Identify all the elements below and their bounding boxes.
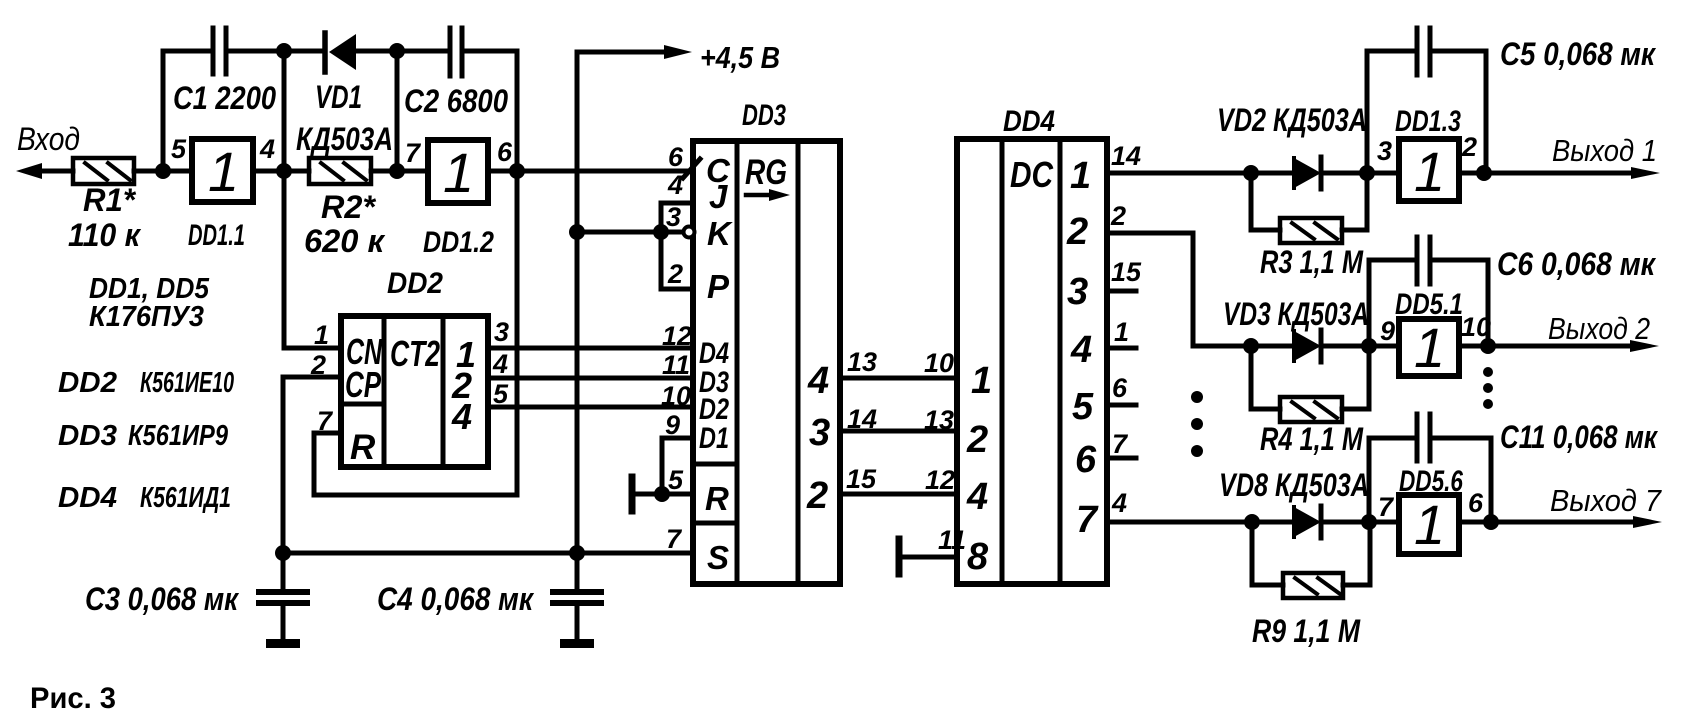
svg-text:1: 1: [1070, 155, 1091, 197]
chassis terminal at DD3 R: [629, 477, 636, 511]
svg-text:1: 1: [971, 360, 992, 402]
resistor R3 loop: [1251, 173, 1367, 243]
svg-text:13: 13: [847, 347, 877, 377]
register DD3: [693, 141, 840, 584]
wire vertical x=397 top to main: [395, 51, 400, 171]
wire DD4 out 7 pin 4 to VD8: [1107, 520, 1294, 525]
node junction top at x=397: [389, 43, 405, 59]
wire DD3 out 3 pin 14 to DD4 in 2: [840, 429, 957, 434]
capacitor C1: [213, 28, 226, 74]
wire vertical x=517 from top wire down to DD2 R loop: [515, 51, 520, 495]
svg-text:12: 12: [662, 321, 692, 351]
wire DD3 out 4 pin 13 to DD4 in 1: [840, 376, 957, 381]
svg-text:К561ИР9: К561ИР9: [128, 420, 228, 452]
pin C dynamic input slash: [683, 159, 700, 178]
node junction at x=662 R wire: [654, 486, 670, 502]
node junction at x=661 K wire: [653, 224, 669, 240]
svg-text:11: 11: [938, 525, 966, 555]
svg-text:C5 0,068 мк: C5 0,068 мк: [1500, 36, 1657, 72]
wire chassis to DD3 pin R: [632, 492, 693, 497]
diode VD8: [1294, 506, 1321, 538]
svg-text:C3 0,068 мк: C3 0,068 мк: [85, 581, 240, 617]
chassis terminal at DD4 input 8: [896, 539, 903, 574]
svg-text:DD4: DD4: [58, 482, 117, 514]
svg-text:4: 4: [807, 360, 829, 402]
node junction row1 at x=1484: [1476, 165, 1492, 181]
svg-text:4: 4: [966, 476, 988, 518]
svg-text:15: 15: [1111, 257, 1142, 287]
node junction at x=577 K wire: [569, 224, 585, 240]
ellipsis dots left of diode rows: [1191, 391, 1203, 457]
svg-text:4: 4: [1070, 329, 1092, 371]
svg-text:3: 3: [494, 317, 509, 347]
wire DD2 output 1 pin 3 to DD3 D4: [488, 346, 693, 351]
svg-text:D1: D1: [699, 422, 729, 455]
svg-text:P: P: [707, 268, 730, 305]
svg-text:J: J: [709, 178, 728, 215]
capacitor C11 loop: [1369, 414, 1491, 522]
svg-text:K: K: [707, 215, 733, 252]
svg-text:110 к: 110 к: [68, 217, 142, 253]
wire DD2 pin 1 CN: [284, 346, 341, 351]
svg-text:+4,5 В: +4,5 В: [700, 40, 780, 75]
svg-text:4: 4: [492, 349, 508, 379]
diode VD2: [1294, 157, 1321, 189]
svg-text:7: 7: [1378, 492, 1395, 522]
svg-text:7: 7: [1076, 499, 1099, 541]
node junction at R1 right: [155, 163, 171, 179]
op element DD1.1: [192, 139, 253, 202]
stub DD4 out 6 pin 7: [1107, 456, 1136, 461]
op element DD5.6: [1399, 495, 1459, 554]
node junction row1 at x=1367: [1359, 165, 1375, 181]
wire DD4 out 2 pin 2 corner down to row 2: [1107, 233, 1294, 346]
svg-text:CP: CP: [345, 364, 382, 405]
svg-text:4: 4: [451, 396, 472, 437]
op element DD5.1: [1399, 319, 1459, 376]
svg-text:2: 2: [1066, 211, 1088, 253]
svg-text:11: 11: [662, 350, 690, 380]
wire DD2 output 4 pin 5 to DD3 D2: [488, 405, 693, 410]
svg-text:R1*: R1*: [83, 182, 137, 218]
power +4,5 В branch: [577, 45, 692, 553]
counter DD2: [341, 316, 488, 467]
svg-text:6: 6: [1468, 488, 1484, 518]
op element DD1.3: [1399, 139, 1459, 201]
op element DD1.2: [428, 140, 488, 203]
svg-text:5: 5: [1072, 386, 1094, 428]
svg-text:VD1: VD1: [315, 79, 362, 115]
svg-text:2: 2: [966, 419, 988, 461]
svg-text:3: 3: [1067, 271, 1088, 313]
svg-text:DC: DC: [1010, 154, 1054, 195]
svg-text:DD5.1: DD5.1: [1395, 288, 1463, 321]
node: input terminal Вход arrow: [16, 163, 73, 179]
svg-text:6: 6: [668, 142, 684, 172]
svg-text:6: 6: [497, 137, 513, 167]
node junction row3 at x=1491: [1483, 514, 1499, 530]
svg-text:4: 4: [667, 170, 683, 200]
node junction row3 at x=1369: [1361, 514, 1377, 530]
node junction at x=397 main line: [389, 163, 405, 179]
wire R1 to DD1.1: [134, 169, 192, 174]
RG shift arrow: [746, 189, 790, 201]
svg-text:VD2 КД503А: VD2 КД503А: [1217, 102, 1367, 138]
svg-text:5: 5: [668, 465, 684, 495]
svg-text:10: 10: [924, 348, 954, 378]
wire K input from +4,5 vertical: [577, 230, 682, 235]
wire DD1.2 to DD3 pin C: [488, 169, 693, 174]
svg-text:2: 2: [667, 259, 683, 289]
capacitor C4: [553, 553, 601, 639]
wire vertical CP down to bottom rail: [281, 377, 286, 553]
svg-text:7: 7: [1112, 429, 1129, 459]
svg-text:R9 1,1 М: R9 1,1 М: [1252, 613, 1361, 649]
wire DD2 pin 7 R: [314, 433, 517, 495]
svg-text:DD5.6: DD5.6: [1399, 465, 1463, 498]
svg-text:DD2: DD2: [58, 367, 117, 399]
wire bottom rail to DD3 pin S: [283, 551, 693, 556]
node junction row2 at x=1369: [1361, 338, 1377, 354]
svg-text:12: 12: [925, 465, 955, 495]
svg-text:C2 6800: C2 6800: [404, 83, 508, 119]
svg-text:1: 1: [1114, 317, 1129, 347]
svg-text:7: 7: [666, 524, 683, 554]
svg-text:R2*: R2*: [321, 189, 377, 225]
decoder DD4: [957, 139, 1107, 584]
svg-text:C1 2200: C1 2200: [173, 80, 276, 116]
node junction rail at x=283: [275, 545, 291, 561]
node junction at x=284 main line: [276, 163, 292, 179]
resistor R1: [73, 158, 134, 184]
svg-text:1: 1: [1414, 140, 1445, 203]
wire DD1.3 to output arrow 1: [1459, 167, 1660, 179]
wire DD1.1 to R2: [253, 169, 309, 174]
capacitor C5 loop: [1367, 28, 1486, 173]
svg-text:Выход 1: Выход 1: [1552, 133, 1657, 168]
node junction row2 at x=1488: [1480, 338, 1496, 354]
svg-text:1: 1: [208, 140, 239, 203]
svg-text:DD3: DD3: [742, 99, 786, 132]
resistor R2: [309, 158, 371, 184]
node junction row1 at x=1251: [1243, 165, 1259, 181]
node junction row2 at x=1251: [1243, 338, 1259, 354]
svg-text:К176ПУ3: К176ПУ3: [89, 301, 204, 333]
node junction row3 at x=1252: [1244, 514, 1260, 530]
svg-text:9: 9: [1380, 316, 1395, 346]
svg-text:R4 1,1 М: R4 1,1 М: [1260, 421, 1364, 457]
svg-text:8: 8: [967, 536, 989, 578]
svg-text:Рис. 3: Рис. 3: [30, 682, 116, 715]
svg-text:R3 1,1 М: R3 1,1 М: [1260, 244, 1364, 280]
svg-text:6: 6: [1075, 439, 1097, 481]
svg-text:5: 5: [171, 134, 187, 164]
svg-text:R: R: [705, 480, 729, 517]
wire DD5.6 to output arrow 7: [1459, 516, 1662, 528]
svg-text:RG: RG: [745, 153, 787, 192]
svg-text:1: 1: [1414, 316, 1445, 379]
diode VD3: [1294, 330, 1321, 362]
wire vertical x=284 from top wire through main to DD2 pin1: [282, 51, 287, 348]
svg-text:1: 1: [443, 141, 474, 204]
svg-text:К561ИЕ10: К561ИЕ10: [140, 367, 234, 399]
inversion bubble at K pin: [684, 227, 695, 238]
svg-text:1: 1: [314, 320, 329, 350]
wire D1 bracket down to R wire: [662, 438, 693, 494]
ellipsis dots below output 2: [1483, 367, 1493, 409]
svg-text:VD8 КД503А: VD8 КД503А: [1219, 467, 1369, 503]
svg-text:2: 2: [1461, 132, 1477, 162]
diode VD1: [325, 33, 356, 72]
capacitor C6 loop: [1369, 237, 1488, 346]
svg-text:620 к: 620 к: [304, 223, 386, 259]
stub DD4 out 5 pin 6: [1107, 403, 1136, 408]
wire VD2 to DD1.3: [1321, 171, 1399, 176]
wire vertical up from node to C1: [161, 51, 166, 171]
wire DD2 output 2 pin 4 to DD3 D3: [488, 376, 693, 381]
svg-text:S: S: [707, 539, 729, 576]
svg-text:6: 6: [1112, 373, 1128, 403]
svg-text:3: 3: [666, 202, 681, 232]
svg-text:DD1.2: DD1.2: [423, 226, 494, 259]
svg-text:VD3 КД503А: VD3 КД503А: [1223, 296, 1369, 332]
wire DD2 pin 2 CP: [283, 375, 341, 380]
svg-text:C4 0,068 мк: C4 0,068 мк: [377, 581, 535, 617]
wire VD8 to DD5.6: [1321, 520, 1399, 525]
stub DD4 out 3 pin 15: [1107, 289, 1136, 294]
svg-text:КД503А: КД503А: [296, 121, 393, 157]
svg-text:DD1.3: DD1.3: [1395, 105, 1461, 138]
node junction at x=517 main line: [509, 163, 525, 179]
svg-text:C6 0,068 мк: C6 0,068 мк: [1497, 246, 1657, 282]
svg-text:2: 2: [310, 350, 326, 380]
svg-text:7: 7: [405, 138, 422, 168]
svg-text:2: 2: [1110, 201, 1126, 231]
svg-text:13: 13: [924, 405, 954, 435]
svg-text:Выход 2: Выход 2: [1548, 311, 1650, 346]
svg-text:15: 15: [846, 464, 877, 494]
resistor R9 loop: [1252, 522, 1370, 598]
svg-text:CT2: CT2: [390, 333, 440, 374]
wire DD5.1 to output arrow 2: [1459, 340, 1659, 352]
wire C1 to VD1: [226, 49, 322, 54]
svg-text:1: 1: [1414, 493, 1445, 556]
node junction rail at x=577: [569, 545, 585, 561]
wire R2 to DD1.2: [371, 169, 428, 174]
stub DD4 out 4 pin 1: [1107, 346, 1136, 351]
svg-text:R: R: [350, 428, 376, 467]
svg-text:14: 14: [1111, 141, 1141, 171]
svg-text:Вход: Вход: [17, 121, 80, 157]
ground under C3: [266, 639, 300, 648]
wire DD3 out 2 pin 15 to DD4 in 4: [840, 492, 957, 497]
svg-text:Выход 7: Выход 7: [1550, 483, 1663, 518]
wire chassis to DD4 pin 11: [899, 555, 957, 560]
capacitor C2: [450, 28, 462, 76]
wire VD3 to DD5.1: [1321, 344, 1399, 349]
svg-text:4: 4: [1111, 488, 1127, 518]
wire C2 to corner x=517: [462, 49, 517, 54]
svg-text:7: 7: [317, 406, 334, 436]
wire top to C1 left plate: [163, 49, 213, 54]
wire VD1 to C2: [356, 49, 450, 54]
svg-text:DD4: DD4: [1003, 105, 1055, 138]
svg-text:DD3: DD3: [58, 420, 117, 452]
svg-text:C11 0,068 мк: C11 0,068 мк: [1500, 419, 1658, 455]
svg-text:14: 14: [847, 404, 877, 434]
svg-text:2: 2: [806, 475, 828, 517]
bracket tying J K P pins: [661, 203, 693, 289]
svg-text:5: 5: [493, 379, 509, 409]
svg-text:К561ИД1: К561ИД1: [140, 482, 231, 514]
svg-text:4: 4: [259, 134, 275, 164]
node junction top at x=284: [276, 43, 292, 59]
svg-text:3: 3: [809, 412, 830, 454]
svg-text:3: 3: [1377, 136, 1392, 166]
capacitor C3: [259, 553, 307, 639]
resistor R4 loop: [1251, 346, 1369, 422]
svg-text:DD2: DD2: [387, 267, 443, 300]
svg-text:10: 10: [661, 381, 691, 411]
svg-text:DD1.1: DD1.1: [188, 219, 245, 252]
ground under C4: [560, 639, 594, 648]
wire DD4 out 1 pin 14 to VD2: [1107, 171, 1294, 176]
